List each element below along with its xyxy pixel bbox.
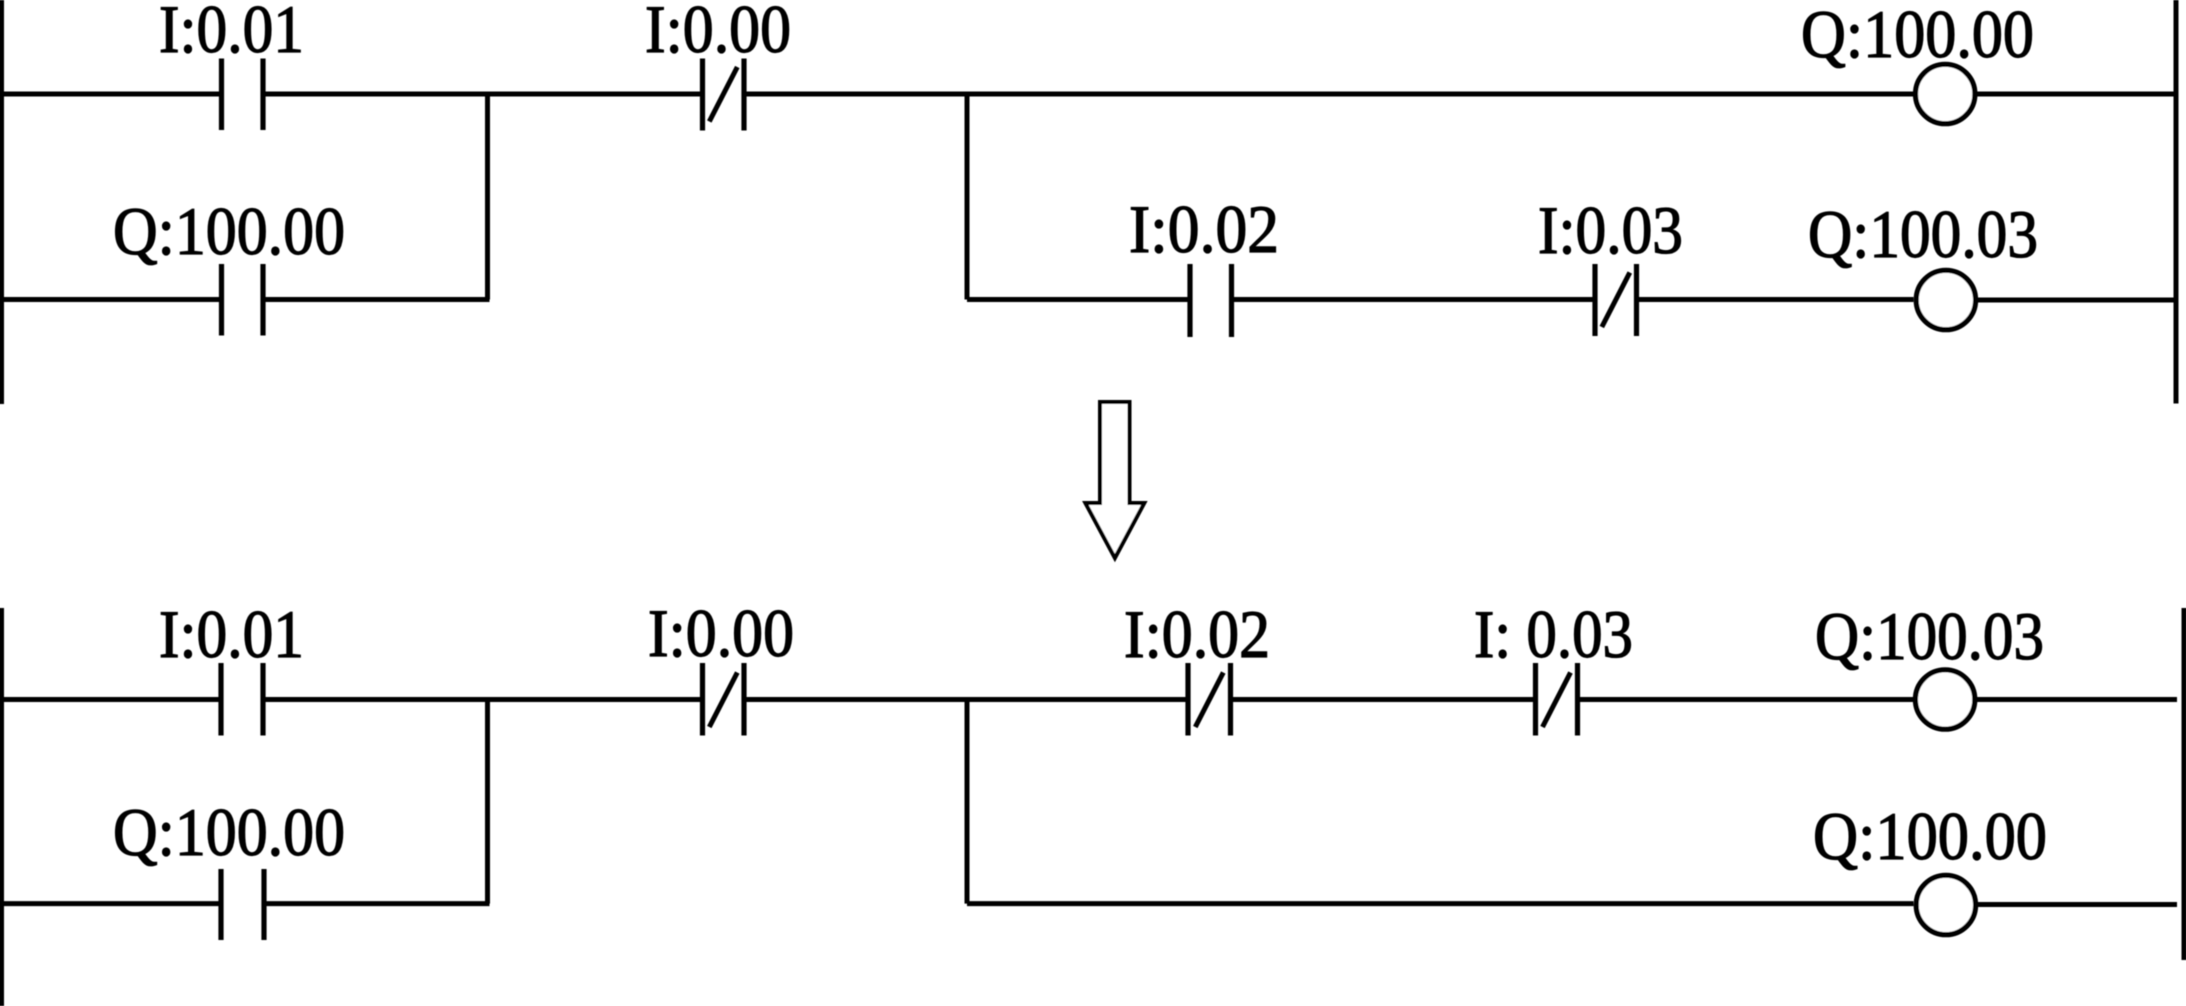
coil Q:100.00 (bottom rung 2): [1916, 875, 1975, 934]
wire: coil Q:100.03 to right rail: [1978, 298, 2177, 303]
right power rail (top network): [2174, 0, 2179, 404]
contact Q:100.00 (NO, bottom seal-in branch): [221, 869, 264, 940]
svg-text:I: 0.03: I: 0.03: [1474, 596, 1633, 672]
svg-text:Q:100.00: Q:100.00: [113, 193, 345, 269]
wire: branch junction vertical 1 (top): [485, 94, 490, 300]
contact Q:100.00 (NO, seal-in branch): [222, 264, 264, 336]
svg-text:Q:100.00: Q:100.00: [113, 794, 345, 870]
arrow (conversion indicator): [1085, 402, 1144, 558]
coil Q:100.03 (bottom rung 1): [1915, 670, 1974, 729]
left power rail (bottom network): [0, 608, 4, 1006]
contact I:0.01 (NO, bottom): [221, 663, 263, 736]
wire: branch junction vertical 1 (bottom): [485, 700, 490, 904]
wire: coil Q:100.00 to right rail (bottom): [1978, 902, 2177, 907]
wire: I:0.02 to I:0.03: [1234, 297, 1593, 302]
svg-text:I:0.02: I:0.02: [1129, 191, 1279, 267]
contact I:0.02 (NC, bottom): [1188, 663, 1231, 736]
contact I:0.02 (NO): [1190, 264, 1232, 337]
wire: I:0.01 to I:0.00: [266, 92, 701, 97]
svg-text:I:0.00: I:0.00: [648, 595, 794, 671]
wire: I:0.01 to I:0.00 (bottom): [266, 697, 701, 702]
contact I:0.03 (NC, bottom): [1536, 663, 1578, 736]
wire: I:0.02 to I:0.03 (bottom): [1233, 697, 1533, 702]
wire: I:0.03 to coil Q:100.03 (bottom): [1580, 697, 1913, 702]
right power rail (bottom network): [2182, 608, 2186, 960]
wire: branch junction vertical 2 (top): [965, 94, 970, 300]
svg-text:Q:100.00: Q:100.00: [1801, 0, 2034, 72]
svg-text:Q:100.00: Q:100.00: [1813, 798, 2047, 874]
wire: branch vertical 2 to coil Q:100.00 (bottom): [967, 901, 1914, 906]
coil Q:100.03 (rung 2): [1916, 270, 1975, 329]
wire: I:0.03 to coil Q:100.03: [1639, 297, 1914, 302]
wire: I:0.00 to coil Q:100.00: [747, 92, 1915, 97]
wire: coil Q:100.03 to right rail (bottom): [1977, 697, 2177, 702]
wire: left rail to contact Q:100.00 (parallel branch): [0, 297, 220, 302]
coil Q:100.00 (rung 1): [1916, 64, 1975, 123]
wire: left rail to contact Q:100.00 (bottom branch): [0, 901, 219, 906]
wire: contact Q:100.00 to branch vertical 1 (bottom): [267, 901, 490, 906]
svg-text:I:0.03: I:0.03: [1538, 192, 1683, 268]
wire: coil to right rail (rung 1): [1977, 92, 2176, 97]
svg-text:I:0.02: I:0.02: [1124, 596, 1270, 672]
left power rail (top network): [0, 0, 4, 404]
contact I:0.01 (NO): [222, 59, 264, 131]
contact I:0.03 (NC): [1595, 264, 1637, 336]
contact I:0.00 (NC, bottom): [703, 663, 745, 736]
svg-text:I:0.01: I:0.01: [159, 596, 304, 672]
svg-text:I:0.01: I:0.01: [159, 0, 304, 67]
svg-text:I:0.00: I:0.00: [645, 0, 791, 67]
contact I:0.00 (NC): [703, 59, 745, 131]
wire: contact Q:100.00 to branch vertical 1: [266, 297, 490, 302]
wire: left rail to contact I:0.01 (rung 1): [0, 92, 220, 97]
wire: I:0.00 to I:0.02 (bottom): [747, 697, 1186, 702]
svg-text:Q:100.03: Q:100.03: [1808, 196, 2038, 272]
wire: left rail to contact I:0.01 (bottom rung 1): [0, 697, 219, 702]
wire: branch junction vertical 2 (bottom): [965, 700, 970, 904]
wire: branch vertical 2 to contact I:0.02: [967, 297, 1188, 302]
svg-text:Q:100.03: Q:100.03: [1815, 598, 2044, 674]
